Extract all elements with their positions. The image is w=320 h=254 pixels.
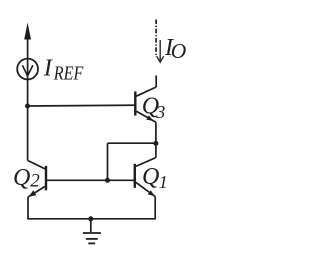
current source IREF [17,59,38,80]
label IREF [43,55,84,84]
transistor Q1 [135,158,156,197]
wire base rail Q2 to Q1 [46,179,135,181]
wire Q3 collector vertical [155,76,157,88]
wire Q3 emitter down to node B [155,122,157,158]
svg-text:I: I [43,55,53,81]
label Q2 [13,165,40,192]
svg-text:2: 2 [30,170,40,191]
wire Q2 emitter down to rail [27,197,29,219]
VCC supply arrow [24,23,31,40]
label Q1 [142,164,168,192]
IO dash-dot supply line [155,20,157,58]
label Q3 [142,93,166,122]
svg-text:Q: Q [13,165,30,191]
svg-text:Q: Q [142,164,159,190]
node A junction dot [25,104,30,109]
wire node A to Q3 base [28,104,135,107]
node C junction dot on base rail [105,178,110,183]
IO current arrow [157,40,164,62]
ground [83,219,101,244]
wire vertical down to base rail [107,143,109,180]
wire bottom rail [27,218,156,220]
wire Q1 emitter down to rail [154,197,156,219]
transistor Q3 [135,87,156,122]
svg-text:REF: REF [53,63,84,85]
node B junction dot [153,141,158,146]
svg-text:1: 1 [159,172,168,192]
wire left column: supply through current source down to Q2 collector bend [27,30,29,160]
node D junction dot at ground tap [88,216,93,221]
svg-text:3: 3 [155,102,165,122]
svg-text:O: O [171,39,187,63]
wire node B horizontal to left [108,142,156,144]
label IO [164,35,187,63]
transistor Q2 [28,160,46,197]
